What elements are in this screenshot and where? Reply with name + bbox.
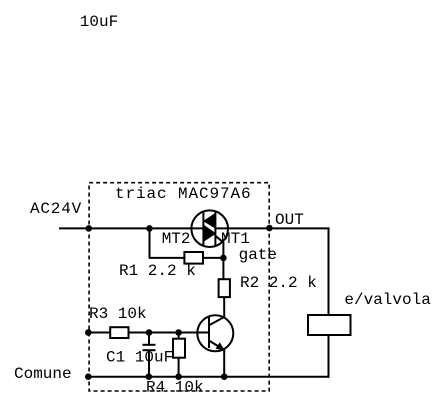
resistor R4 — [173, 339, 185, 358]
transistor emitter arrowhead — [216, 342, 225, 350]
svg-text:AC24V: AC24V — [30, 200, 82, 218]
wire: AC24V input to triac MT2 — [59, 227, 203, 229]
wire: R1 to gate node — [203, 257, 223, 259]
resistor R1 — [184, 252, 203, 264]
wire: C1 bottom lead — [148, 350, 150, 377]
svg-text:triac MAC97A6: triac MAC97A6 — [115, 185, 252, 203]
node dot: C1 bottom — [146, 373, 153, 380]
node dot: R4 bottom — [175, 373, 182, 380]
node dot: left edge on main wire — [86, 225, 93, 232]
svg-text:MT2: MT2 — [162, 230, 191, 248]
svg-text:R3 10k: R3 10k — [89, 305, 147, 323]
capacitor C1 top plate — [143, 344, 156, 346]
wire: R1 branch horizontal to R1 — [149, 257, 185, 259]
triac MT1 bar — [214, 212, 216, 246]
node dot: R1 branch on main wire — [146, 225, 153, 232]
resistor R3 — [110, 327, 128, 338]
svg-text:10uF: 10uF — [80, 13, 118, 31]
resistor R2 — [219, 279, 230, 297]
wire: R2 to transistor collector — [223, 297, 225, 318]
wire: emitter down to bottom rail — [223, 350, 225, 377]
node dot: gate junction — [220, 255, 227, 262]
wire: R3 to transistor base — [129, 332, 210, 334]
triac U1 circle — [191, 210, 228, 247]
triac MT2 bar — [202, 212, 204, 246]
triac upper triangle (points left) — [204, 214, 216, 229]
transistor base bar — [208, 317, 210, 348]
node dot: R4 top — [175, 329, 182, 336]
transistor collector lead — [209, 317, 225, 326]
wire: R4 top lead — [178, 333, 180, 339]
svg-text:R2 2.2 k: R2 2.2 k — [240, 274, 317, 292]
node dot: bottom-left on dashed edge — [85, 373, 92, 380]
wire: OUT corner down to relay coil — [328, 227, 330, 315]
svg-text:R1 2.2 k: R1 2.2 k — [119, 262, 196, 280]
relay coil e/valvola box — [308, 315, 351, 335]
wire: base row (R3 to base) — [88, 332, 110, 334]
wire: triac MT1 to OUT corner — [215, 227, 329, 229]
transistor Q1 circle — [197, 315, 233, 351]
svg-text:R4 10k: R4 10k — [146, 379, 204, 397]
wire: R4 bottom lead — [178, 358, 180, 377]
dashed box around triac MAC97A6 — [89, 183, 269, 391]
svg-text:gate: gate — [239, 246, 277, 264]
triac gate lead diagonal — [215, 236, 223, 243]
triac lower triangle (points right) — [204, 226, 216, 242]
svg-text:C1 10uF: C1 10uF — [106, 349, 173, 367]
svg-text:e/valvola: e/valvola — [344, 291, 431, 309]
wire: bottom Comune rail — [88, 376, 329, 378]
wire: R1 branch vertical from main wire — [149, 228, 151, 258]
transistor emitter lead — [209, 341, 223, 350]
wire: gate vertical (gate lead to R2) — [222, 242, 224, 279]
svg-text:OUT: OUT — [275, 211, 304, 229]
capacitor C1 bottom plate — [143, 349, 156, 351]
node dot: OUT — [266, 225, 273, 232]
node dot: C1 top — [146, 329, 153, 336]
wire: relay coil down to bottom rail — [328, 335, 330, 378]
wire: C1 top lead — [148, 333, 150, 345]
node dot: R3 left on dashed edge — [85, 329, 92, 336]
node dot: emitter on bottom rail — [221, 373, 228, 380]
svg-text:Comune: Comune — [14, 365, 72, 383]
